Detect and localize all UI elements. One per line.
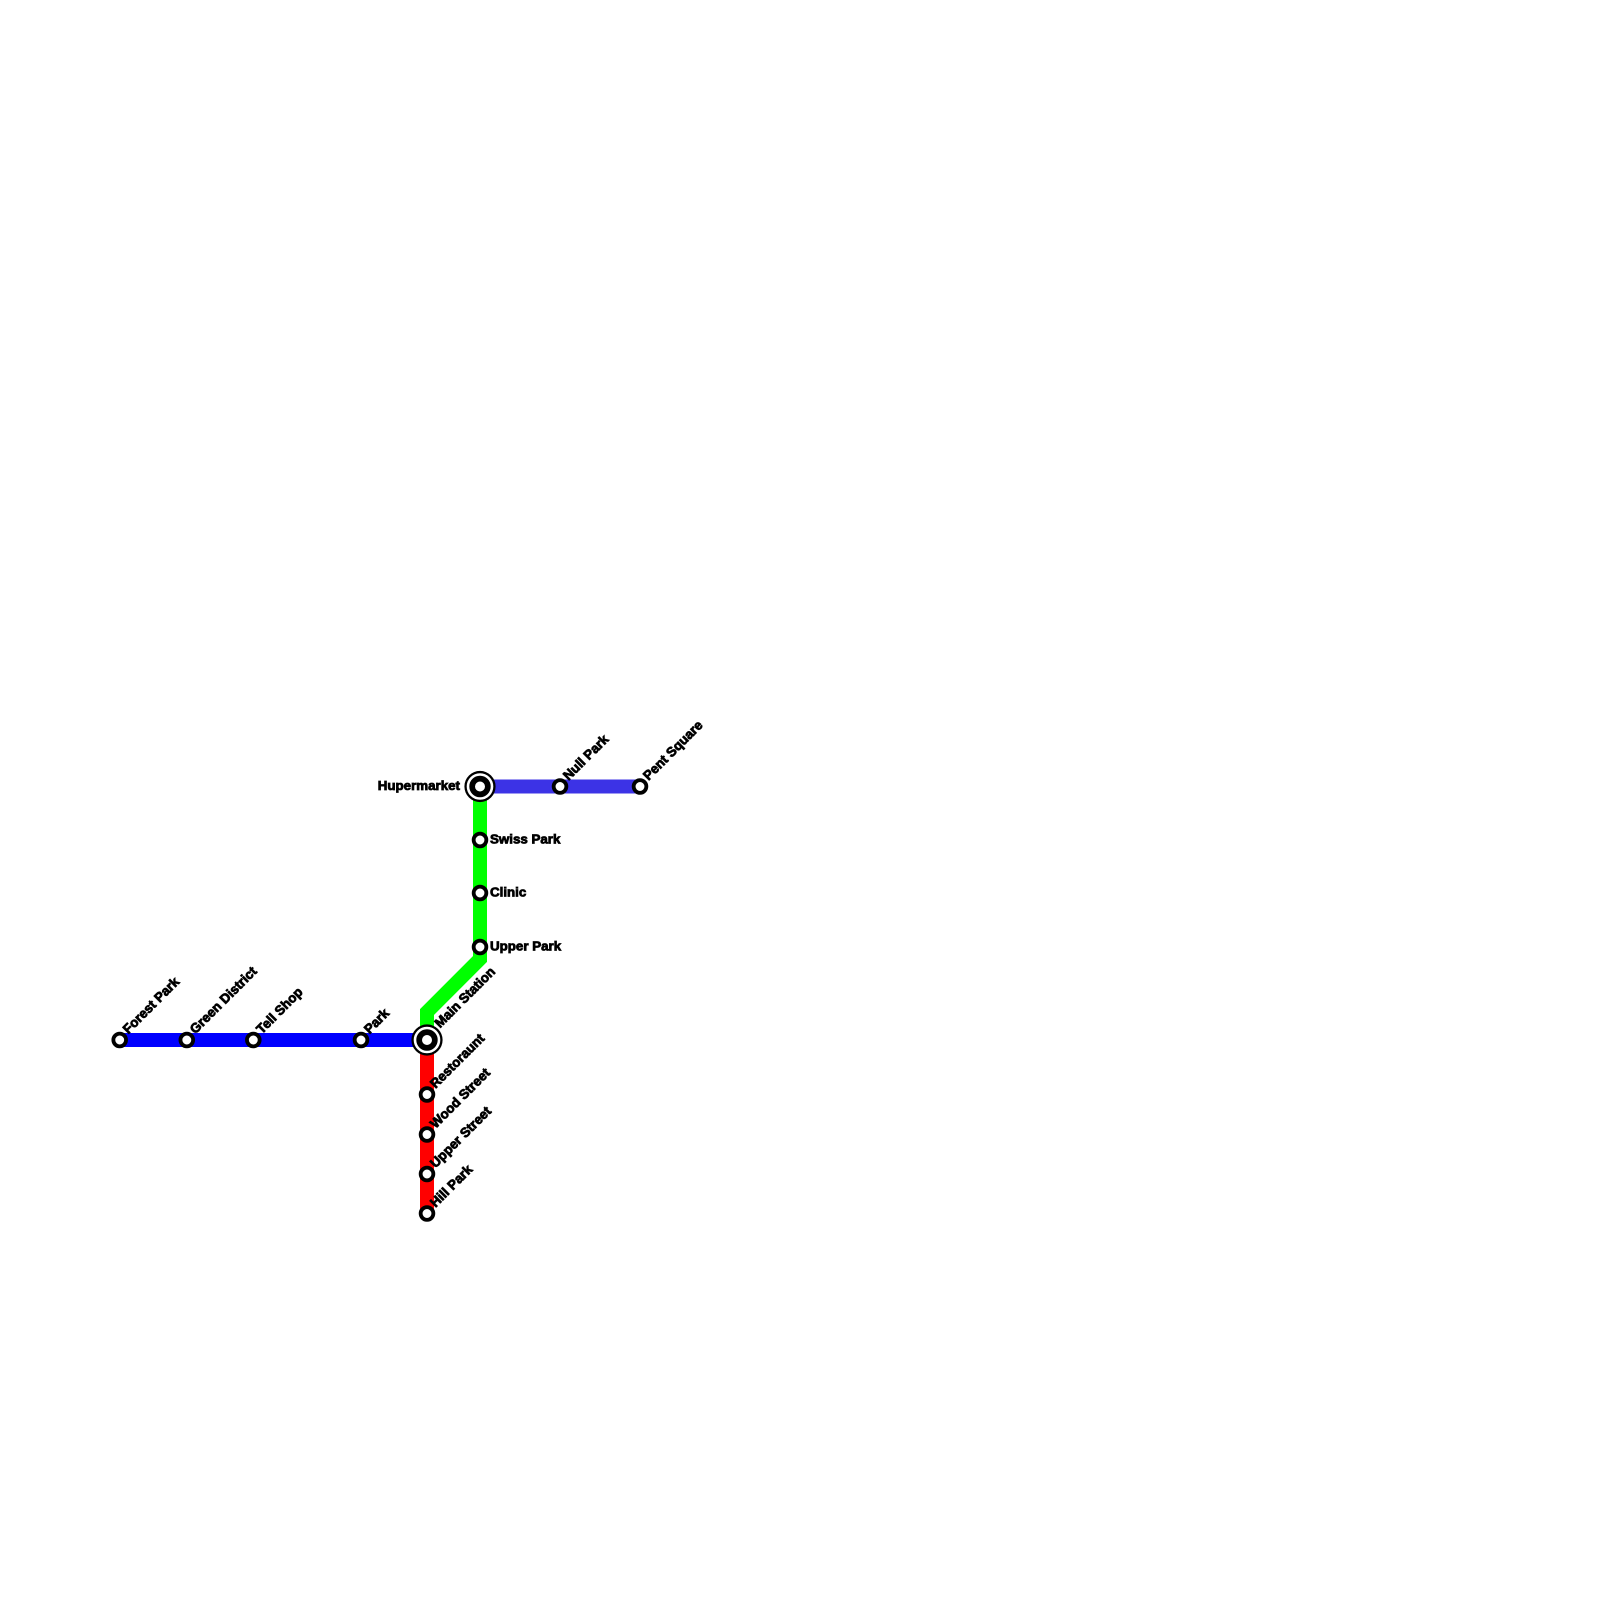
svg-text:Hupermarket: Hupermarket	[378, 778, 461, 793]
svg-text:Swiss Park: Swiss Park	[490, 831, 561, 846]
node Clinic	[474, 887, 487, 900]
node Wood Street	[421, 1128, 434, 1141]
node Upper Park	[474, 941, 487, 954]
node Hill Park	[421, 1207, 434, 1220]
node Green District	[180, 1034, 193, 1047]
wire: red line Main Station-Hill Park	[420, 1040, 434, 1214]
node Swiss Park	[474, 834, 487, 847]
node Upper Street	[421, 1168, 434, 1181]
node Null Park	[554, 780, 567, 793]
node Tell Shop	[247, 1034, 260, 1047]
wire: green line Hupermarket-Main Station	[427, 787, 480, 1041]
node Main Station (interchange)	[411, 1024, 442, 1055]
node Park	[355, 1034, 368, 1047]
wire: blue line Forest Park-Main Station	[120, 1033, 427, 1047]
node Restoraunt	[421, 1088, 434, 1101]
node Pent Square	[634, 780, 647, 793]
svg-text:Upper Park: Upper Park	[490, 938, 562, 953]
svg-text:Clinic: Clinic	[490, 884, 527, 899]
node Forest Park	[113, 1034, 126, 1047]
wire: violet line Hupermarket-Pent Square	[480, 780, 640, 794]
node Hupermarket (interchange)	[464, 771, 495, 802]
